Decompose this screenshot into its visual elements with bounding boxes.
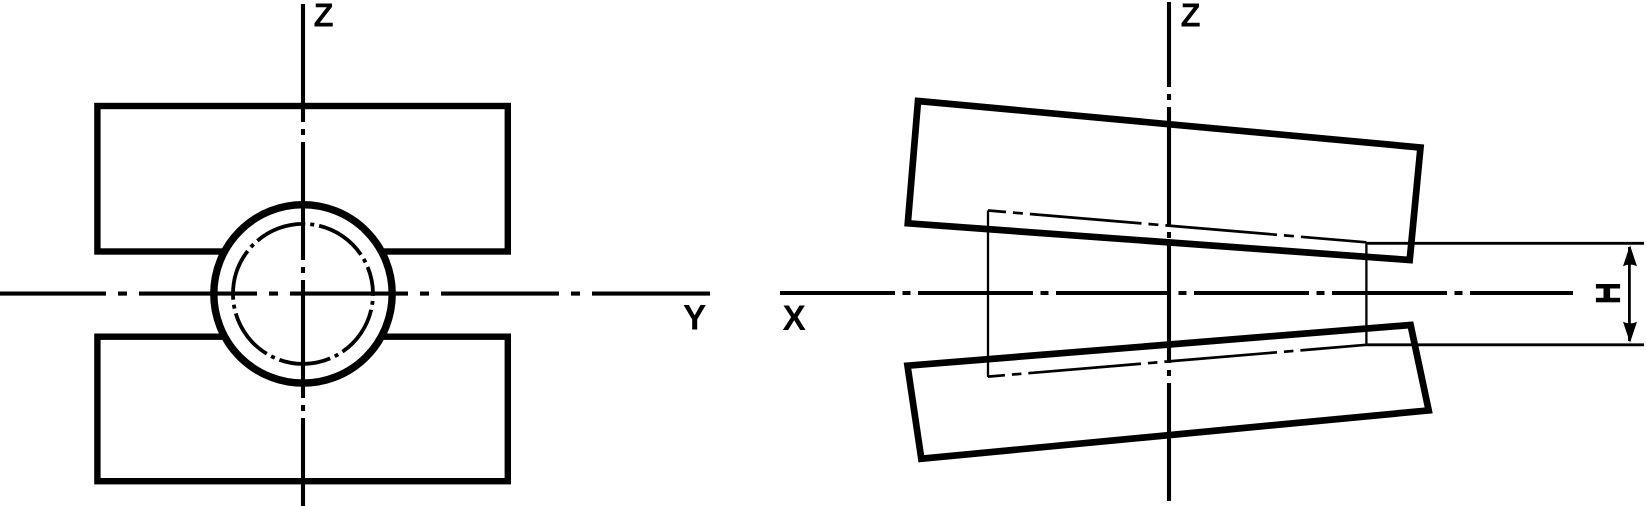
svg-text:X: X: [783, 299, 807, 338]
X axis (right view): [780, 291, 1573, 295]
bottom extension line for H: [1366, 343, 1644, 346]
shaft inner dash-dot circle: [233, 224, 373, 364]
H dimension line: [1628, 247, 1631, 341]
upper bore axis dash-dot slant: [988, 211, 1366, 243]
Y axis (left view): [0, 292, 713, 296]
H dimension arrow up: [1623, 245, 1637, 266]
lower bearing block tilted (right view): [908, 325, 1429, 459]
Z axis (right view): [1167, 2, 1171, 506]
upper bearing block tilted (right view): [908, 101, 1421, 260]
upper bearing block (left view): [97, 106, 507, 252]
shaft left end face (thin vertical): [987, 211, 989, 378]
svg-text:Z: Z: [314, 0, 334, 34]
Z axis (left view): [301, 4, 305, 506]
label H (rotated), drawn as bars: [1596, 284, 1620, 302]
svg-text:Z: Z: [1181, 0, 1201, 34]
svg-text:Y: Y: [683, 299, 706, 338]
shaft outer circle: [214, 205, 392, 383]
shaft right end face (thin vertical): [1365, 242, 1367, 345]
lower bearing block (left view): [97, 337, 507, 482]
top extension line for H: [1366, 242, 1644, 245]
lower bore axis dash-dot slant: [988, 345, 1366, 377]
H dimension arrow down: [1623, 322, 1637, 343]
